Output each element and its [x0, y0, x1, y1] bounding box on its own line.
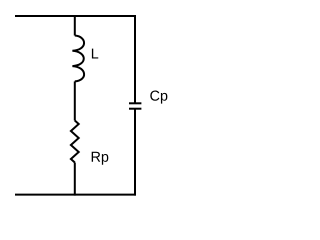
capacitor Cp top plate: [129, 102, 141, 104]
inductor L (3 loops): [72, 36, 84, 82]
wire right branch lower: [134, 110, 136, 196]
resistor Rp (zigzag): [71, 121, 79, 163]
label Rp (resistor): [92, 152, 109, 165]
wire between L and Rp: [74, 81, 76, 120]
wire right branch upper: [134, 15, 136, 103]
wire middle branch top stub: [74, 15, 76, 36]
wire middle branch bottom stub: [74, 163, 76, 196]
label L (inductor): [92, 49, 98, 59]
capacitor Cp bottom plate: [129, 108, 141, 110]
wire bottom rail: [15, 194, 136, 196]
label Cp (capacitor): [150, 91, 167, 104]
wire top rail: [15, 15, 136, 17]
